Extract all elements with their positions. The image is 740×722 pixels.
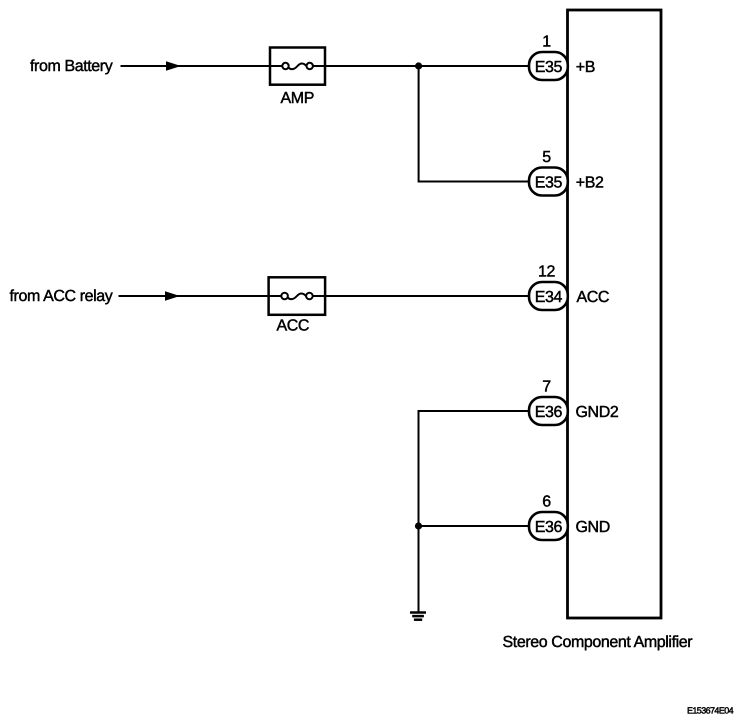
svg-text:from Battery: from Battery bbox=[30, 58, 113, 75]
arrowhead on ACC wire bbox=[165, 291, 180, 300]
svg-text:5: 5 bbox=[542, 149, 551, 166]
svg-text:E34: E34 bbox=[535, 289, 563, 306]
wire: junction down to +B2 row bbox=[419, 66, 530, 182]
wire: fuse AMP to connector E35 pin 1 bbox=[325, 65, 530, 67]
wire: GND row horizontal bbox=[419, 525, 531, 527]
svg-text:GND: GND bbox=[576, 519, 610, 536]
connector E35 pin 1 bbox=[529, 52, 568, 80]
svg-text:E36: E36 bbox=[535, 519, 563, 536]
svg-text:E35: E35 bbox=[535, 174, 563, 191]
svg-text:E36: E36 bbox=[535, 404, 563, 421]
connector E35 pin 5 bbox=[529, 168, 568, 196]
svg-text:ACC: ACC bbox=[577, 289, 610, 306]
junction node on battery wire bbox=[415, 62, 422, 69]
junction node on ground wire bbox=[415, 522, 422, 529]
svg-text:Stereo Component Amplifier: Stereo Component Amplifier bbox=[503, 634, 694, 651]
wire: GND2 row horizontal bbox=[419, 410, 531, 412]
wire: fuse ACC to connector E34 pin 12 bbox=[325, 295, 530, 297]
fuse AMP bbox=[270, 48, 325, 85]
ground symbol bbox=[410, 613, 426, 620]
svg-text:12: 12 bbox=[538, 264, 555, 281]
svg-text:+B: +B bbox=[576, 59, 595, 76]
amplifier block outline U1 bbox=[568, 10, 662, 618]
fuse ACC bbox=[269, 277, 326, 315]
wire: from ACC relay to fuse ACC bbox=[119, 295, 270, 297]
wire: from Battery to fuse AMP bbox=[121, 65, 272, 67]
connector E36 pin 6 bbox=[529, 512, 568, 540]
svg-text:+B2: +B2 bbox=[576, 174, 604, 191]
connector E36 pin 7 bbox=[529, 397, 568, 425]
svg-text:E153674E04: E153674E04 bbox=[687, 705, 734, 715]
connector E34 pin 12 bbox=[529, 282, 568, 310]
svg-text:6: 6 bbox=[542, 494, 551, 511]
wire: GND2 corner down to GND junction bbox=[418, 410, 420, 526]
svg-text:1: 1 bbox=[542, 34, 551, 51]
svg-text:7: 7 bbox=[542, 379, 551, 396]
svg-text:GND2: GND2 bbox=[576, 404, 619, 421]
svg-text:E35: E35 bbox=[535, 59, 563, 76]
wire: junction down to ground symbol bbox=[418, 526, 420, 612]
svg-text:from ACC relay: from ACC relay bbox=[10, 288, 113, 305]
svg-text:AMP: AMP bbox=[281, 90, 314, 107]
arrowhead on battery wire bbox=[166, 61, 181, 70]
svg-text:ACC: ACC bbox=[277, 317, 310, 334]
